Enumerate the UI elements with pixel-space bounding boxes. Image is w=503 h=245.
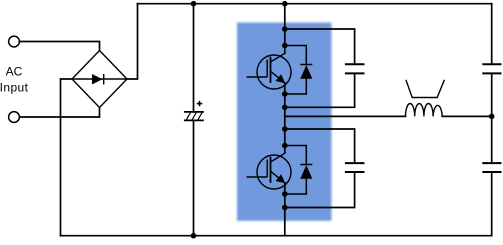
inductor core symbol (406, 80, 445, 98)
snubber capacitor C2 (upper) (345, 64, 365, 73)
node: top rail / center rail (282, 1, 288, 7)
snubber capacitor C3 (lower) (345, 163, 365, 172)
wire: right branch lower (491, 116, 493, 235)
node: bottom rail / cap branch (191, 233, 197, 239)
terminal: AC input bottom (9, 112, 20, 123)
smoothing capacitor C1 (electrolytic) (184, 112, 204, 121)
node: upper emitter (282, 91, 288, 97)
terminal: AC input top (9, 36, 20, 47)
freewheel diode D2 (upper) (285, 46, 313, 95)
wire: center rail upper segment (284, 4, 286, 54)
freewheel diode D3 (lower) (285, 146, 313, 195)
wire: center rail middle segment (284, 83, 286, 154)
node: lower emitter (282, 191, 288, 197)
wire: output line to inductor (285, 115, 406, 117)
wire: upper snubber capacitor branch (285, 29, 355, 107)
node: inductor output (489, 114, 495, 120)
node: top rail / cap branch (191, 1, 197, 7)
wire: smoothing capacitor branch top (193, 4, 195, 112)
wire: smoothing capacitor branch bottom (193, 120, 195, 235)
bridge rectifier D1 (72, 51, 127, 108)
wire: bridge left vertex down to bottom rail (61, 79, 73, 236)
node: lower snubber top (282, 126, 288, 132)
node: lower snubber bottom (282, 205, 288, 211)
wire: inductor to right node (442, 115, 492, 117)
wire: bridge right vertex up to top rail (127, 4, 138, 79)
wire: top rail (138, 3, 492, 5)
node: upper collector (282, 43, 288, 49)
node: upper snubber top (282, 26, 288, 32)
IGBT module highlight box (237, 23, 332, 221)
wire: lower snubber capacitor branch (285, 129, 355, 208)
wire: bottom rail (61, 235, 492, 237)
IGBT Q1 (upper) (247, 53, 292, 89)
svg-text:AC: AC (6, 65, 23, 79)
plus polarity label (197, 101, 202, 106)
node: upper snubber bottom (282, 105, 288, 111)
output capacitor C5 (lower right) (482, 163, 501, 172)
inductor L1 (406, 103, 443, 116)
wire: right branch upper (491, 4, 493, 117)
wire: top AC input to bridge top vertex (20, 42, 100, 51)
output capacitor C4 (upper right) (482, 64, 501, 73)
wire: bottom AC input to bridge bottom vertex (20, 108, 100, 118)
wire: center rail lower segment (284, 183, 286, 236)
svg-text:Input: Input (0, 81, 29, 95)
node: lower collector (282, 143, 288, 149)
IGBT Q2 (lower) (247, 153, 292, 189)
